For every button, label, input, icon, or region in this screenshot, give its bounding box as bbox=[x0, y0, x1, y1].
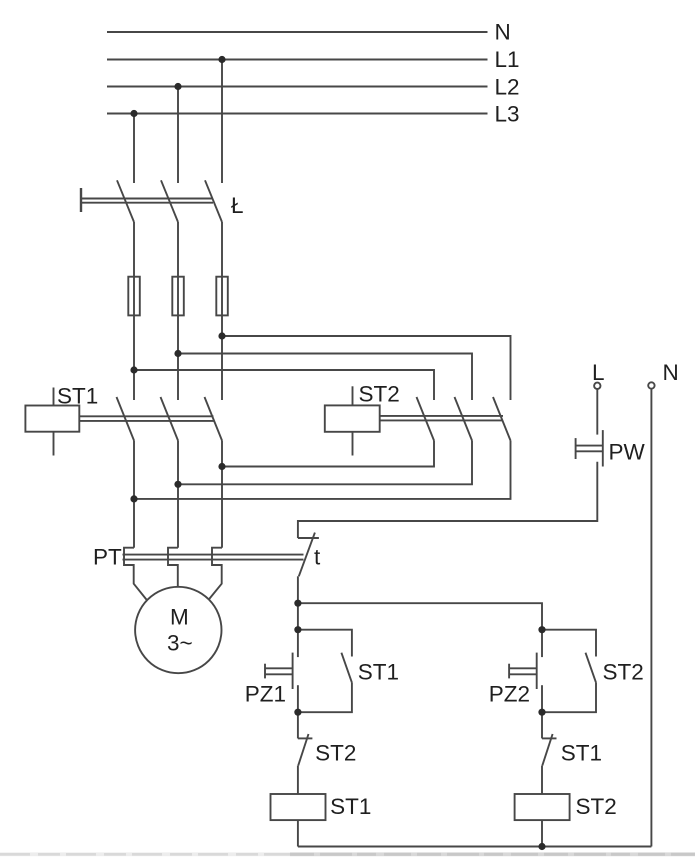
junction dot phase1 upper crossover bbox=[218, 332, 225, 339]
NC contact t hook bbox=[298, 537, 319, 539]
wire crossover top from L1 phase to ST2 pole3 bbox=[222, 336, 511, 400]
svg-text:N: N bbox=[495, 20, 511, 45]
coil ST2 stub above bbox=[352, 386, 354, 405]
wire crossover top from L3 phase to ST2 pole1 bbox=[134, 370, 434, 400]
svg-text:t: t bbox=[314, 545, 321, 570]
junction dot phase2 lower crossover bbox=[174, 481, 181, 488]
scan artifact band at bottom bbox=[0, 852, 695, 856]
svg-text:ST1: ST1 bbox=[57, 384, 98, 409]
svg-text:PZ2: PZ2 bbox=[489, 682, 530, 707]
switch Ł left end bar bbox=[80, 188, 82, 212]
wire branch top run to right branch bbox=[298, 603, 542, 630]
fuse F1 bbox=[128, 277, 140, 316]
coil ST1 stub above bbox=[53, 388, 55, 406]
terminal circle N bbox=[648, 382, 654, 388]
wire through fuse 1 down to ST1 contact bbox=[133, 277, 135, 400]
wire N down to bottom rail bbox=[650, 389, 652, 847]
switch Ł linkage double bar bbox=[81, 198, 213, 200]
pushbutton PZ2 actuator double link bbox=[509, 667, 537, 669]
wire left branch down to PZ1 bbox=[297, 603, 299, 657]
contactor ST2 linkage double bar bbox=[380, 415, 503, 417]
wire L2 drop bbox=[177, 87, 179, 184]
junction dot phase2 upper crossover bbox=[174, 350, 181, 357]
junction dot phase3 upper crossover bbox=[130, 366, 137, 373]
junction dot PZ1 top bbox=[294, 626, 301, 633]
pushbutton PZ1 contact bar bbox=[292, 653, 294, 689]
svg-text:ST1: ST1 bbox=[358, 660, 399, 685]
svg-text:ST2: ST2 bbox=[315, 741, 356, 766]
bus L1 bbox=[107, 59, 488, 61]
wire pole1 switch to fuse bbox=[133, 222, 135, 277]
wire to NC ST2 bbox=[297, 712, 299, 738]
wire parallel branch ST1 contact (left) bbox=[298, 630, 352, 657]
pushbutton PZ2 contact bar bbox=[536, 653, 538, 689]
wire pole2 switch to fuse bbox=[177, 222, 179, 277]
svg-text:3~: 3~ bbox=[167, 631, 193, 656]
NC contact t blade bbox=[299, 533, 315, 577]
coil box ST2 (control) bbox=[515, 794, 570, 820]
contactor ST1 pole 2 blade bbox=[161, 397, 179, 441]
svg-text:PT: PT bbox=[93, 545, 122, 570]
junction dot phase1 lower crossover bbox=[218, 463, 225, 470]
junction dot bottom rail bbox=[538, 843, 545, 850]
wire coil ST1 to bottom rail bbox=[297, 820, 299, 846]
motor M circle bbox=[135, 587, 221, 673]
switch Ł pole 2 blade bbox=[161, 180, 178, 222]
coil ST1 stub below bbox=[53, 432, 55, 456]
junction dot PZ2 bottom bbox=[538, 709, 545, 716]
wire coil ST2 to bottom rail bbox=[541, 820, 543, 846]
wire ST1 pole3 lower bbox=[221, 441, 223, 548]
coil box ST1 (main contactor) bbox=[25, 406, 79, 432]
contactor ST1 pole 3 blade bbox=[205, 397, 223, 441]
bus L3 bbox=[107, 113, 488, 115]
pushbutton PW actuator double link bbox=[576, 445, 603, 447]
NC contact ST2 blade bbox=[298, 734, 308, 766]
contactor ST2 pole 3 blade bbox=[493, 397, 511, 441]
wire ST1 pole1 lower bbox=[133, 441, 135, 548]
junction dot PZ1 bottom bbox=[294, 709, 301, 716]
coil ST2 stub below bbox=[352, 432, 354, 456]
junction dot L1 tap bbox=[218, 56, 225, 63]
wire pole3 switch to fuse bbox=[221, 222, 223, 277]
wire NC ST1 to coil ST2 bbox=[541, 766, 543, 794]
wire right branch down to PZ2 bbox=[541, 630, 543, 657]
wire through fuse 2 down to ST1 contact bbox=[177, 277, 179, 400]
wire L1 drop bbox=[221, 60, 223, 184]
wire PW down and left to contact t bbox=[298, 462, 597, 538]
contactor ST1 linkage double bar bbox=[79, 415, 213, 417]
svg-text:L: L bbox=[592, 360, 605, 385]
pushbutton PZ2 actuator T-bar bbox=[508, 664, 510, 679]
coil box ST2 (main contactor) bbox=[325, 405, 380, 431]
wire through fuse 3 down to ST1 contact bbox=[221, 277, 223, 400]
svg-text:PZ1: PZ1 bbox=[245, 682, 286, 707]
junction dot L3 tap bbox=[130, 110, 137, 117]
wire PZ2 lower bbox=[541, 685, 543, 712]
wire NC ST2 to coil ST1 bbox=[297, 766, 299, 794]
contactor ST2 pole 2 blade bbox=[455, 397, 473, 441]
pushbutton PW actuator T-bar bbox=[575, 438, 577, 459]
wire t to branch split bbox=[297, 576, 299, 603]
svg-text:L2: L2 bbox=[495, 75, 520, 100]
terminal circle L bbox=[594, 383, 600, 389]
NO contact ST2 blade (hold branch right) bbox=[586, 653, 596, 683]
fuse F3 bbox=[216, 277, 228, 316]
thermal overload PT pole 2 heater jog bbox=[168, 548, 178, 587]
wire ST1 pole2 lower bbox=[177, 441, 179, 548]
svg-text:L3: L3 bbox=[495, 102, 520, 127]
svg-text:Ł: Ł bbox=[231, 193, 244, 218]
wire PZ1 lower bbox=[297, 685, 299, 712]
wire crossover bottom ST2 pole3 to L3 phase bbox=[134, 441, 511, 499]
svg-text:PW: PW bbox=[609, 440, 646, 465]
wire crossover bottom ST2 pole2 to L2 phase bbox=[178, 441, 472, 485]
junction dot control branch split bbox=[294, 600, 301, 607]
wire crossover top from L2 phase to ST2 pole2 bbox=[178, 354, 472, 401]
thermal overload PT pole 3 heater jog bbox=[209, 548, 222, 599]
junction dot L2 tap bbox=[174, 83, 181, 90]
NC contact ST1 blade bbox=[542, 734, 552, 766]
svg-text:M: M bbox=[170, 605, 189, 630]
svg-text:L1: L1 bbox=[495, 47, 520, 72]
pushbutton PZ1 actuator T-bar bbox=[264, 664, 266, 679]
svg-text:ST1: ST1 bbox=[330, 794, 371, 819]
pushbutton PW contact bar bbox=[602, 430, 604, 466]
contactor ST2 pole 1 blade bbox=[417, 397, 435, 441]
contactor ST1 pole 1 blade bbox=[117, 397, 135, 441]
wire to NC ST1 bbox=[541, 712, 543, 738]
pushbutton PZ1 actuator double link bbox=[265, 667, 293, 669]
wire parallel branch ST1 lower bbox=[298, 682, 352, 712]
wire parallel branch ST2 contact (right) bbox=[542, 630, 596, 657]
coil box ST1 (control) bbox=[271, 794, 326, 820]
svg-text:ST2: ST2 bbox=[576, 794, 617, 819]
NC contact ST1 hook bbox=[542, 737, 557, 739]
thermal overload PT linkage double bar bbox=[123, 554, 304, 556]
wire parallel branch ST2 lower bbox=[542, 682, 596, 712]
fuse F2 bbox=[172, 277, 184, 316]
bus N bbox=[107, 31, 488, 33]
switch Ł pole 1 blade bbox=[117, 180, 134, 222]
svg-text:N: N bbox=[663, 360, 679, 385]
bottom rail wire bbox=[298, 846, 652, 848]
wire L3 drop bbox=[133, 114, 135, 184]
thermal overload PT pole 1 heater jog bbox=[124, 548, 147, 600]
svg-text:ST2: ST2 bbox=[359, 382, 400, 407]
junction dot phase3 lower crossover bbox=[130, 495, 137, 502]
NO contact ST1 blade (hold branch left) bbox=[341, 653, 351, 683]
svg-text:ST1: ST1 bbox=[561, 741, 602, 766]
switch Ł pole 3 blade bbox=[205, 180, 222, 222]
bus L2 bbox=[107, 86, 488, 88]
wire L down to PW bbox=[596, 389, 598, 434]
NC contact ST2 hook bbox=[298, 737, 313, 739]
wire crossover bottom ST2 pole1 to L1 phase bbox=[222, 441, 434, 467]
svg-text:ST2: ST2 bbox=[603, 660, 644, 685]
junction dot PZ2 top bbox=[538, 626, 545, 633]
